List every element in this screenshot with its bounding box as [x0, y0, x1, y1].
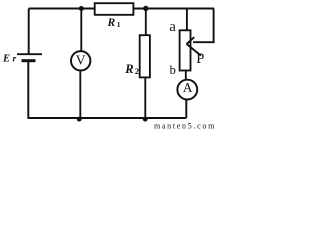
wiper arrow of P — [187, 37, 201, 55]
wire bottom — [28, 117, 186, 119]
wire left — [28, 9, 30, 54]
svg-text:V: V — [76, 52, 86, 67]
node junction bottom-middle — [143, 117, 148, 122]
svg-text:P: P — [196, 51, 204, 67]
wire right side — [193, 9, 214, 43]
battery E r — [17, 54, 42, 61]
resistor R1 — [95, 3, 134, 15]
label R1 — [107, 17, 121, 29]
wire R2 branch lower — [144, 77, 146, 118]
node junction bottom-left — [77, 117, 82, 122]
label R2 — [124, 62, 139, 76]
wire potentiometer top branch — [186, 9, 188, 31]
resistor R2 — [140, 35, 150, 77]
svg-text:manten5.com: manten5.com — [154, 121, 216, 129]
node junction top-left — [79, 6, 84, 11]
ammeter A — [177, 80, 197, 100]
wire top — [29, 8, 214, 10]
wire R2 branch upper — [145, 9, 147, 36]
svg-text:a: a — [169, 19, 176, 35]
svg-text:r: r — [13, 55, 17, 65]
svg-text:A: A — [183, 80, 193, 95]
svg-text:E: E — [2, 54, 10, 65]
wire left lower — [27, 61, 29, 119]
wire voltmeter branch lower — [79, 70, 81, 118]
voltmeter V — [71, 51, 90, 70]
wire voltmeter branch upper — [80, 9, 82, 52]
svg-text:b: b — [170, 63, 176, 77]
wire ammeter to bottom — [185, 99, 187, 118]
svg-text:R: R — [107, 17, 116, 29]
wire pot to ammeter — [185, 70, 187, 80]
potentiometer P body — [180, 30, 191, 70]
svg-text:1: 1 — [117, 20, 121, 29]
svg-text:2: 2 — [135, 66, 139, 76]
node junction top-right — [143, 6, 148, 11]
svg-text:R: R — [124, 62, 133, 76]
